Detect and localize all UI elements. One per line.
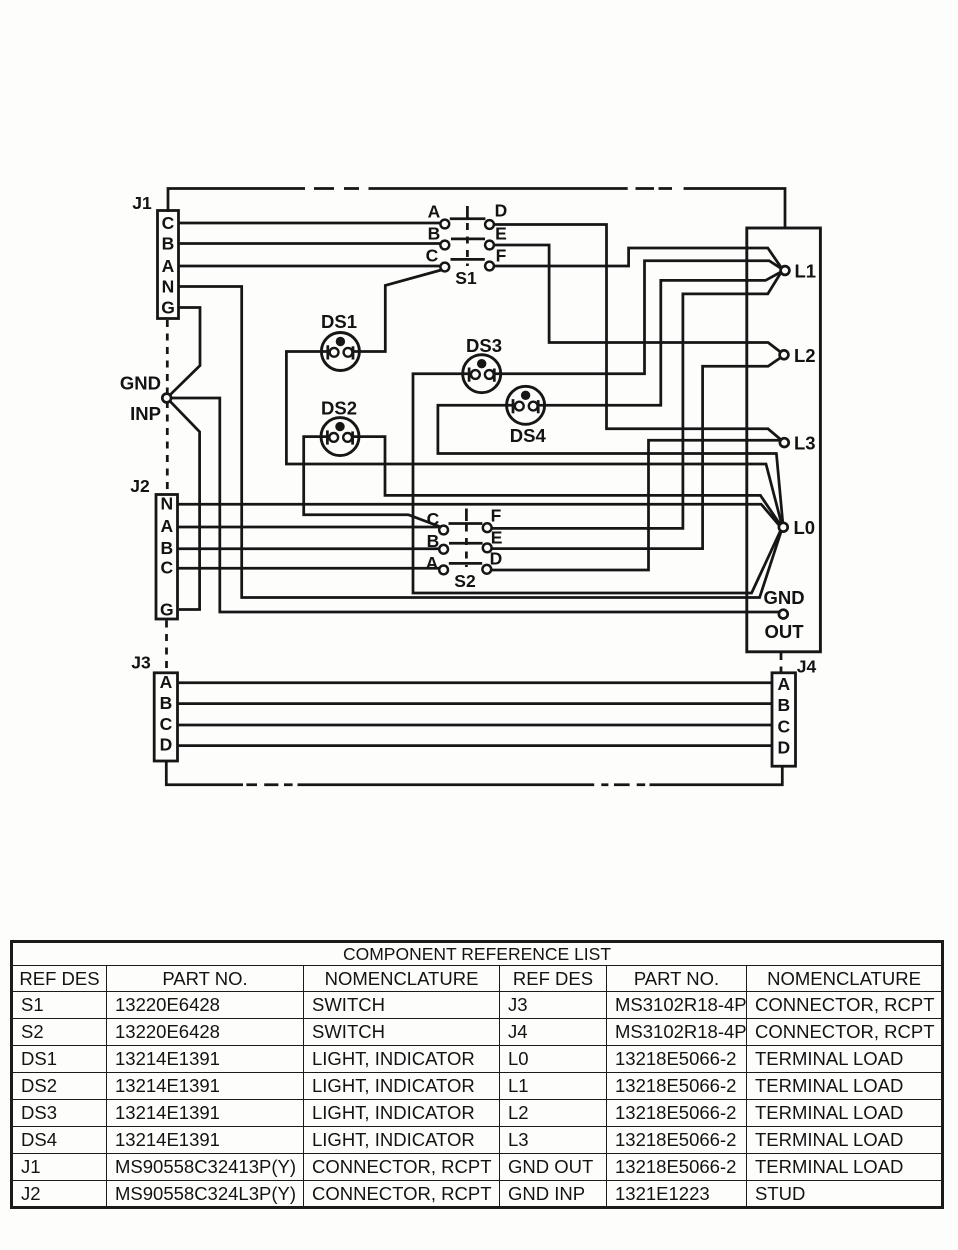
terminal L2 [780,345,816,366]
svg-text:DS2: DS2 [321,398,357,419]
terminal GND OUT [763,587,804,642]
svg-text:J1: J1 [132,193,152,213]
svg-text:DS3: DS3 [466,335,502,356]
svg-text:S1: S1 [455,268,477,288]
wire J1-B to S1-B [179,242,440,245]
wire S1-C to DS1 right pin [348,270,441,352]
svg-text:J2: J2 [130,476,150,496]
svg-text:L3: L3 [794,433,816,454]
svg-text:A: A [426,553,439,573]
wire bottom rail J3 to J4 (partially dashed) [166,761,782,785]
wire J3-A to J4-A [179,681,772,684]
wire J3-D to J4-D [179,744,772,747]
wire J3-C to J4-C [179,724,772,727]
wire J1-N to terminal L0 [179,287,781,598]
svg-text:B: B [162,234,175,254]
node GND INP [120,373,171,425]
svg-text:L2: L2 [794,345,816,366]
wire DS4 right pin to terminal L1 [532,272,781,405]
terminal L3 [780,433,816,454]
wire top rail from J1 to terminal box (partially dashed) [168,189,785,229]
wire J2-B to S2-B [179,547,440,550]
wire DS3 left pin to terminal L0 [413,374,781,593]
wire DS2 right pin to terminal L0 [347,437,781,525]
svg-text:A: A [777,674,790,694]
connector J1 [132,193,178,319]
svg-text:F: F [496,246,507,266]
wire J1-A to S1-C [179,265,440,268]
wire S1-D to terminal L3 [494,225,781,440]
svg-text:N: N [160,494,173,514]
wire J1-C to S1-A [179,222,440,225]
wire J2-C to S2-A [179,567,440,570]
svg-text:B: B [428,224,441,244]
svg-text:C: C [160,714,173,734]
indicator light DS1 [321,333,359,371]
wire S2-D to terminal L3 [491,440,780,570]
switch S1 [426,201,508,289]
svg-text:N: N [162,277,175,297]
svg-text:A: A [428,202,441,222]
dashed link J2 to J3 [165,621,168,672]
svg-text:GND: GND [120,373,161,394]
component reference table [10,940,944,1209]
wire DS4 left pin to terminal L0 [438,405,783,522]
wire S2-E to terminal L2 [492,357,781,548]
svg-text:G: G [161,298,175,318]
svg-text:E: E [491,528,503,548]
indicator light DS3 [463,355,501,393]
switch S2 [426,506,503,592]
connector J2 [130,476,177,620]
indicator light DS4 [507,386,545,424]
svg-text:B: B [777,695,790,715]
dashed link terminal box to J4 [780,653,783,672]
svg-text:L0: L0 [794,517,816,538]
svg-text:J3: J3 [131,653,151,673]
svg-text:D: D [777,738,790,758]
svg-text:DS4: DS4 [510,425,547,446]
svg-text:S2: S2 [454,571,476,591]
wire J1-G to GND INP node [170,308,200,396]
terminal L1 [781,261,816,282]
wire DS1 left pin to terminal L0 [286,352,781,524]
wire S1-F to terminal L1 [494,248,782,268]
svg-text:C: C [162,213,175,233]
svg-text:D: D [490,549,503,569]
svg-text:F: F [491,506,502,526]
svg-text:B: B [160,693,173,713]
svg-text:D: D [160,734,173,754]
connector J3 [131,653,177,762]
svg-text:C: C [160,558,173,578]
svg-text:D: D [495,201,508,221]
svg-text:E: E [495,224,507,244]
wire S2-F to terminal L1 [492,272,781,528]
indicator light DS2 [321,418,359,456]
connector J4 [772,657,816,767]
svg-text:B: B [160,538,173,558]
svg-text:C: C [426,246,439,266]
dashed link J1 to J2 (through GND node) [166,320,169,493]
wire GND INP node to J2-G [170,401,200,610]
wire GND INP node to GND OUT terminal [171,398,779,612]
svg-text:A: A [160,672,173,692]
wire J3-B to J4-B [179,702,772,705]
svg-text:L1: L1 [795,261,817,282]
svg-text:INP: INP [130,403,161,424]
svg-text:A: A [160,516,173,536]
svg-text:B: B [427,531,440,551]
svg-text:OUT: OUT [764,621,804,642]
wire S1-E to terminal L2 [494,245,781,352]
svg-text:GND: GND [763,587,804,608]
svg-text:A: A [162,256,175,276]
wire J2-A to S2-C [179,526,440,529]
svg-text:C: C [777,717,790,737]
wire J2-N to terminal L0 [179,504,780,526]
terminal load box [747,228,821,652]
wire DS2 left pin to S2-C [304,437,441,527]
terminal L0 [779,517,815,538]
svg-text:G: G [160,600,174,620]
wire DS3 right pin to terminal L1 [488,261,781,374]
svg-text:C: C [427,509,440,529]
svg-text:J4: J4 [797,657,817,677]
svg-text:DS1: DS1 [321,311,357,332]
